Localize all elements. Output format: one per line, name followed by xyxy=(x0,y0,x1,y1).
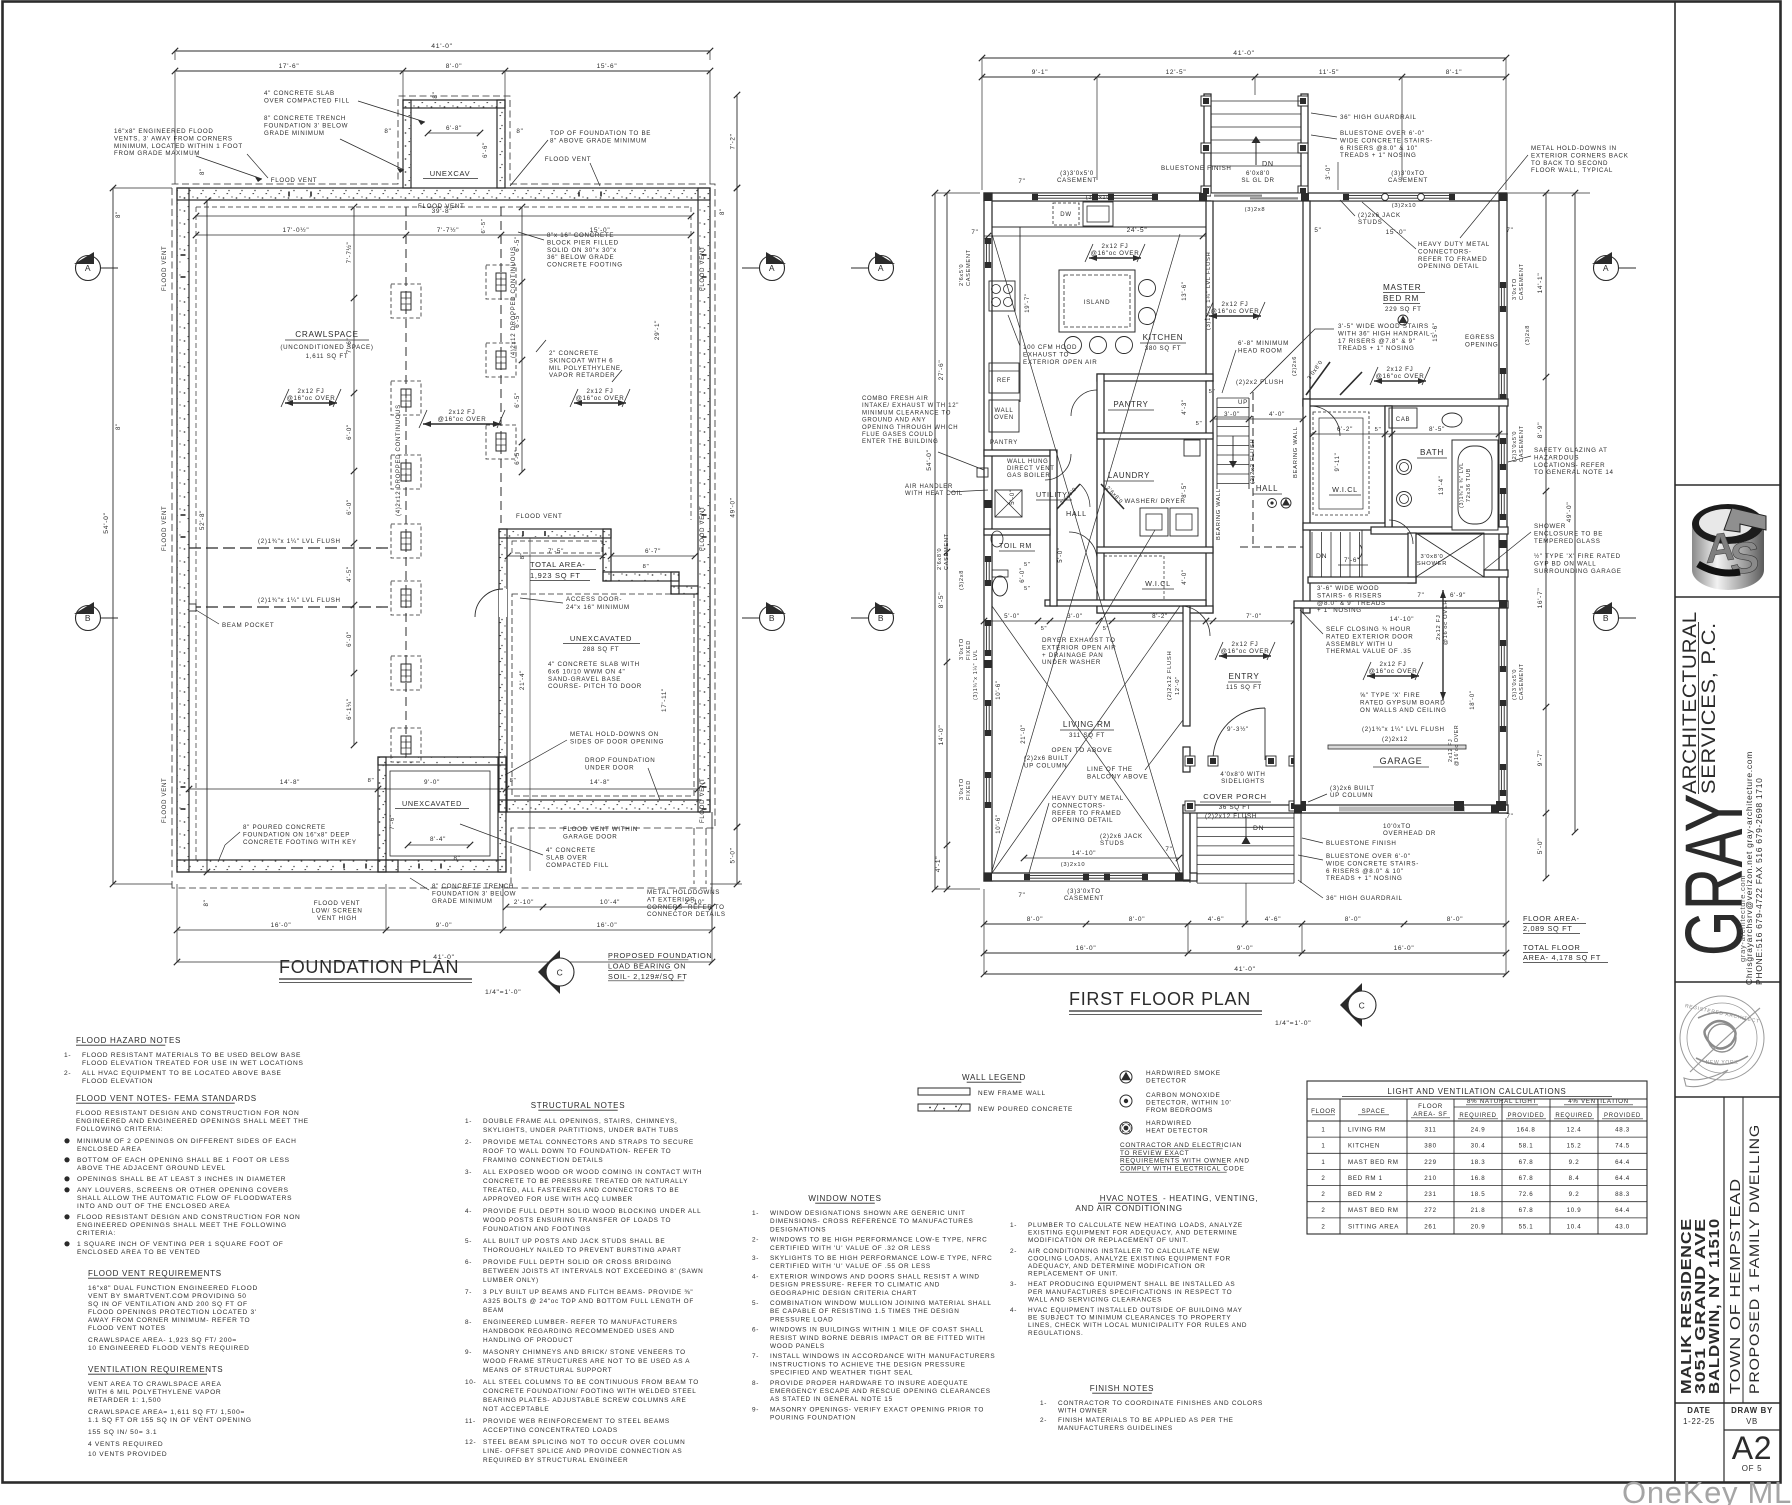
svg-text:6'-9": 6'-9" xyxy=(1450,592,1466,599)
svg-text:DOUBLE FRAME ALL OPENINGS, STA: DOUBLE FRAME ALL OPENINGS, STAIRS, CHIMN… xyxy=(483,1118,678,1125)
svg-text:1-22-25: 1-22-25 xyxy=(1683,1417,1715,1426)
svg-text:MAST BED RM: MAST BED RM xyxy=(1348,1159,1399,1166)
svg-text:BEARING WALL: BEARING WALL xyxy=(1293,426,1299,478)
door leaf diagonals near hall xyxy=(1306,362,1330,395)
svg-text:UP COLUMN: UP COLUMN xyxy=(1024,762,1067,769)
svg-text:DESIGN PRESSURE- REFER TO CLIM: DESIGN PRESSURE- REFER TO CLIMATIC AND xyxy=(770,1282,940,1289)
washer dryer xyxy=(1140,508,1168,536)
svg-text:SL GL DR: SL GL DR xyxy=(1241,177,1274,184)
svg-text:AT EXTERIOR: AT EXTERIOR xyxy=(647,896,695,903)
svg-text:11'-5": 11'-5" xyxy=(1319,69,1339,76)
svg-text:5": 5" xyxy=(1024,562,1031,568)
svg-text:BEAM: BEAM xyxy=(483,1307,504,1314)
svg-text:MIL POLYETHYLENE: MIL POLYETHYLENE xyxy=(549,365,621,372)
foundation inner wall line xyxy=(189,199,698,201)
svg-text:FLOOD RESISTANT DESIGN AND CON: FLOOD RESISTANT DESIGN AND CONSTRUCTION … xyxy=(76,1110,300,1117)
unexcav bump walls xyxy=(403,100,505,108)
svg-text:VENTS, 3' AWAY FROM CORNERS: VENTS, 3' AWAY FROM CORNERS xyxy=(114,135,233,142)
svg-text:OPEN TO ABOVE: OPEN TO ABOVE xyxy=(1051,747,1112,754)
svg-text:FLOOD ELEVATION TREATED FOR US: FLOOD ELEVATION TREATED FOR USE IN WET L… xyxy=(82,1060,304,1067)
svg-text:THOROUGHLY NAILED TO PREVENT B: THOROUGHLY NAILED TO PREVENT BURSTING AP… xyxy=(483,1247,682,1254)
svg-text:CONCRETE FOUNDATION/ FOOTING W: CONCRETE FOUNDATION/ FOOTING WITH WELDED… xyxy=(483,1388,697,1395)
top dimension rows xyxy=(175,50,710,52)
architect seal xyxy=(1680,996,1764,1080)
svg-text:BETWEEN JOISTS AT INTERVALS NO: BETWEEN JOISTS AT INTERVALS NOT EXCEEDIN… xyxy=(483,1268,703,1275)
bottom living windows xyxy=(1024,873,1148,881)
svg-text:WITH 36" HIGH HANDRAIL-: WITH 36" HIGH HANDRAIL- xyxy=(1338,330,1433,337)
svg-text:5": 5" xyxy=(1375,427,1382,433)
svg-text:(3)1¾"x 1¼" LVL: (3)1¾"x 1¼" LVL xyxy=(973,649,979,700)
svg-text:ANY LOUVERS, SCREENS OR OTHER: ANY LOUVERS, SCREENS OR OTHER OPENING CO… xyxy=(77,1187,289,1194)
svg-text:EXTERIOR OPEN AIR: EXTERIOR OPEN AIR xyxy=(1023,359,1097,366)
svg-text:(3)2x8: (3)2x8 xyxy=(959,570,965,590)
svg-text:54'-0": 54'-0" xyxy=(926,449,933,471)
svg-text:WALL LEGEND: WALL LEGEND xyxy=(962,1073,1026,1082)
access door opening + arc xyxy=(499,589,507,617)
svg-text:2x12 FJ: 2x12 FJ xyxy=(1387,366,1414,373)
svg-text:2-: 2- xyxy=(465,1139,472,1146)
svg-text:PANTRY: PANTRY xyxy=(1113,400,1148,409)
svg-text:LUMBER ONLY): LUMBER ONLY) xyxy=(483,1277,539,1284)
svg-text:@16"oc OVER: @16"oc OVER xyxy=(287,395,336,402)
svg-text:ACCEPTING CONCENTRATED LOADS: ACCEPTING CONCENTRATED LOADS xyxy=(483,1427,618,1434)
svg-text:PANTRY: PANTRY xyxy=(990,440,1018,446)
smoke detector master xyxy=(1398,315,1408,325)
svg-text:EXTERIOR WINDOWS AND DOORS SHA: EXTERIOR WINDOWS AND DOORS SHALL RESIST … xyxy=(770,1273,980,1280)
wall oven xyxy=(989,400,1019,432)
svg-text:229: 229 xyxy=(1424,1159,1436,1166)
svg-text:8": 8" xyxy=(520,553,526,560)
svg-text:5'-0": 5'-0" xyxy=(1537,838,1544,854)
svg-text:8'-5": 8'-5" xyxy=(938,592,945,608)
svg-text:HALL: HALL xyxy=(1256,484,1278,493)
svg-text:17 RISERS @7.8" & 9": 17 RISERS @7.8" & 9" xyxy=(1338,338,1416,345)
svg-text:1/4"=1'-0": 1/4"=1'-0" xyxy=(1275,1020,1311,1027)
svg-text:41'-0": 41'-0" xyxy=(1234,966,1256,973)
svg-text:FROM GRADE MAXIMUM: FROM GRADE MAXIMUM xyxy=(114,150,200,157)
svg-text:8": 8" xyxy=(453,855,460,862)
svg-text:REQUIREMENTS WITH OWNER AND: REQUIREMENTS WITH OWNER AND xyxy=(1120,1158,1250,1165)
svg-text:SKYLIGHTS, UNDER PARTITIONS, U: SKYLIGHTS, UNDER PARTITIONS, UNDER BATH … xyxy=(483,1127,679,1134)
svg-text:VENT AREA TO CRAWLSPACE AREA: VENT AREA TO CRAWLSPACE AREA xyxy=(88,1381,222,1388)
svg-text:8'-0": 8'-0" xyxy=(1129,916,1145,923)
svg-text:OPENING: OPENING xyxy=(1465,341,1498,348)
svg-text:(2)2x12: (2)2x12 xyxy=(1382,736,1408,743)
svg-text:11-: 11- xyxy=(465,1418,476,1425)
smoke/co detectors hall xyxy=(1268,499,1277,508)
svg-text:2: 2 xyxy=(1321,1223,1325,1230)
svg-text:BED RM 1: BED RM 1 xyxy=(1348,1175,1383,1182)
svg-text:OVERHEAD DR: OVERHEAD DR xyxy=(1383,830,1436,837)
svg-text:STUDS: STUDS xyxy=(1358,219,1382,226)
svg-text:WINDOWS TO BE HIGH PERFORMANCE: WINDOWS TO BE HIGH PERFORMANCE LOW-E TYP… xyxy=(770,1237,987,1244)
wicl master xyxy=(1385,406,1392,529)
svg-text:TREADS + 1" NOSING: TREADS + 1" NOSING xyxy=(1326,875,1403,882)
svg-text:WIDE CONCRETE STAIRS-: WIDE CONCRETE STAIRS- xyxy=(1326,860,1419,867)
right wall windows xyxy=(1499,282,1507,312)
svg-text:POURING FOUNDATION: POURING FOUNDATION xyxy=(770,1415,856,1422)
svg-text:4 VENTS REQUIRED: 4 VENTS REQUIRED xyxy=(88,1441,163,1448)
svg-text:PROPOSED FOUNDATION: PROPOSED FOUNDATION xyxy=(608,951,712,960)
svg-text:2-: 2- xyxy=(752,1237,759,1244)
svg-text:67.8: 67.8 xyxy=(1519,1207,1534,1214)
svg-text:3'-0": 3'-0" xyxy=(1067,613,1083,620)
svg-text:BEARING WALL: BEARING WALL xyxy=(1216,488,1222,540)
left wall windows xyxy=(984,238,992,268)
svg-text:261: 261 xyxy=(1424,1223,1436,1230)
svg-text:FLOOD VENT: FLOOD VENT xyxy=(545,156,592,163)
svg-text:CASEMENT: CASEMENT xyxy=(1064,895,1104,902)
svg-text:@16"oc OVER: @16"oc OVER xyxy=(1369,668,1418,675)
toil rm sink xyxy=(991,531,1003,547)
svg-text:8": 8" xyxy=(203,899,210,906)
svg-text:8": 8" xyxy=(643,564,650,570)
svg-text:5-: 5- xyxy=(752,1300,759,1307)
svg-text:12'-5": 12'-5" xyxy=(1166,69,1187,76)
svg-text:METAL HOLDDOWNS: METAL HOLDDOWNS xyxy=(647,889,720,896)
svg-text:24"x 16" MINIMUM: 24"x 16" MINIMUM xyxy=(566,604,630,611)
svg-text:SHOWER: SHOWER xyxy=(1417,561,1447,567)
svg-text:8'-0": 8'-0" xyxy=(446,63,462,70)
svg-text:@16"oc OVER: @16"oc OVER xyxy=(576,395,625,402)
svg-text:SOIL- 2,129#/SQ FT: SOIL- 2,129#/SQ FT xyxy=(608,972,688,981)
svg-text:5": 5" xyxy=(1196,421,1203,427)
svg-text:8": 8" xyxy=(200,168,206,175)
svg-text:1: 1 xyxy=(1321,1159,1325,1166)
svg-text:10 VENTS PROVIDED: 10 VENTS PROVIDED xyxy=(88,1451,167,1458)
svg-text:FOLLOWING CRITERIA:: FOLLOWING CRITERIA: xyxy=(76,1126,163,1133)
svg-text:6'-5": 6'-5" xyxy=(481,218,487,233)
svg-text:FLUE GASES COULD: FLUE GASES COULD xyxy=(862,432,934,438)
svg-text:A: A xyxy=(1603,263,1609,273)
C marker floor plan xyxy=(1340,983,1362,1027)
svg-text:FRAMING CONNECTION DETAILS: FRAMING CONNECTION DETAILS xyxy=(483,1157,603,1164)
svg-text:6x6 10/10 WWM ON 4": 6x6 10/10 WWM ON 4" xyxy=(548,668,625,675)
svg-text:1-: 1- xyxy=(1040,1400,1047,1407)
svg-text:1: 1 xyxy=(1321,1127,1325,1134)
svg-text:2x12 FJ: 2x12 FJ xyxy=(1436,614,1442,640)
svg-text:7": 7" xyxy=(1165,846,1172,853)
joist arrows foundation xyxy=(285,402,337,404)
entry left wall xyxy=(1183,606,1190,726)
svg-text:272: 272 xyxy=(1424,1207,1436,1214)
svg-text:LIVING RM: LIVING RM xyxy=(1348,1127,1386,1134)
svg-text:19'-7": 19'-7" xyxy=(1025,293,1031,312)
svg-text:72x36 TUB: 72x36 TUB xyxy=(1466,468,1472,502)
svg-text:4-: 4- xyxy=(465,1208,472,1215)
svg-text:LIVING RM: LIVING RM xyxy=(1063,720,1111,729)
DW dashed box xyxy=(1053,203,1079,225)
svg-text:ALL BUILT UP POSTS AND JACK ST: ALL BUILT UP POSTS AND JACK STUDS SHALL … xyxy=(483,1238,665,1245)
svg-text:MINIMUM CLEARANCE TO: MINIMUM CLEARANCE TO xyxy=(862,410,951,416)
svg-text:COURSE- PITCH TO DOOR: COURSE- PITCH TO DOOR xyxy=(548,683,642,690)
svg-text:COVER PORCH: COVER PORCH xyxy=(1203,792,1267,801)
svg-text:(2)2x6: (2)2x6 xyxy=(1292,356,1298,376)
svg-text:LAUNDRY: LAUNDRY xyxy=(1108,471,1150,480)
svg-text:2x12 FJ: 2x12 FJ xyxy=(449,409,476,416)
svg-text:49'-0": 49'-0" xyxy=(730,497,737,517)
svg-text:7": 7" xyxy=(1506,227,1513,234)
bottom dim rows foundation xyxy=(506,906,712,908)
svg-text:115 SQ FT: 115 SQ FT xyxy=(1226,684,1262,691)
flood vent breaks in walls xyxy=(289,192,311,197)
svg-text:C: C xyxy=(557,968,564,978)
svg-text:BEARING PLATES- ADJUSTABLE SCR: BEARING PLATES- ADJUSTABLE SCREW COLUMNS… xyxy=(483,1397,687,1404)
svg-text:7'-7½": 7'-7½" xyxy=(437,226,460,234)
svg-text:FLOOR AREA-: FLOOR AREA- xyxy=(1523,914,1580,923)
svg-text:(3)1¾"x 1¼" LVL FLUSH: (3)1¾"x 1¼" LVL FLUSH xyxy=(1206,252,1212,330)
svg-text:FROM BEDROOMS: FROM BEDROOMS xyxy=(1146,1107,1213,1114)
svg-text:ALL HVAC EQUIPMENT TO BE LOCAT: ALL HVAC EQUIPMENT TO BE LOCATED ABOVE B… xyxy=(82,1070,282,1077)
svg-text:PRESSURE LOAD: PRESSURE LOAD xyxy=(770,1316,833,1323)
svg-text:CERTIFIED WITH 'U' VALUE OF .3: CERTIFIED WITH 'U' VALUE OF .32 OR LESS xyxy=(770,1245,931,1252)
svg-text:CONNECTORS-: CONNECTORS- xyxy=(1418,248,1472,255)
svg-text:B: B xyxy=(85,613,91,623)
floor plan dims bottom xyxy=(984,923,1506,925)
svg-text:@16'oc OVER: @16'oc OVER xyxy=(1443,600,1449,645)
svg-text:4'-0": 4'-0" xyxy=(1182,569,1188,584)
svg-text:6'-8": 6'-8" xyxy=(446,125,462,132)
svg-text:GARAGE DOOR: GARAGE DOOR xyxy=(563,833,617,840)
kitchen counter lines xyxy=(992,226,1208,228)
tub xyxy=(1452,440,1498,530)
svg-text:CONNECTOR DETAILS: CONNECTOR DETAILS xyxy=(647,911,726,918)
svg-text:PROVIDE FULL DEPTH SOLID WOOD: PROVIDE FULL DEPTH SOLID WOOD BLOCKING U… xyxy=(483,1208,701,1215)
shower xyxy=(1408,533,1416,583)
floor plan dimensions top xyxy=(982,57,1506,59)
svg-text:+ DRAINAGE PAN: + DRAINAGE PAN xyxy=(1042,652,1103,659)
svg-text:CRAWLSPACE AREA- 1,923 SQ FT/: CRAWLSPACE AREA- 1,923 SQ FT/ 200= xyxy=(88,1337,237,1344)
svg-text:MASONRY OPENINGS- VERIFY EXACT: MASONRY OPENINGS- VERIFY EXACT OPENING P… xyxy=(770,1406,984,1413)
svg-text:16'-0": 16'-0" xyxy=(597,922,618,929)
svg-text:@16"oc OVER: @16"oc OVER xyxy=(1211,308,1260,315)
svg-text:ON WALLS AND CEILING: ON WALLS AND CEILING xyxy=(1360,707,1447,714)
svg-text:LINE OF THE: LINE OF THE xyxy=(1087,766,1133,773)
52-8 dim xyxy=(206,201,208,872)
svg-text:4'-6": 4'-6" xyxy=(1265,916,1281,923)
svg-text:5": 5" xyxy=(1209,389,1216,395)
svg-text:OPENING DETAIL: OPENING DETAIL xyxy=(1052,817,1113,824)
svg-text:STUDS: STUDS xyxy=(1100,840,1124,847)
svg-text:FLOOD VENT WITHIN: FLOOD VENT WITHIN xyxy=(563,826,638,833)
svg-text:PROVIDE PROPER HARDWARE TO INS: PROVIDE PROPER HARDWARE TO INSURE ADEQUA… xyxy=(770,1380,968,1387)
svg-text:8'-0": 8'-0" xyxy=(1447,916,1463,923)
svg-text:1,923 SQ FT: 1,923 SQ FT xyxy=(530,571,581,580)
interior top dims xyxy=(196,215,691,217)
svg-text:CAB: CAB xyxy=(1396,417,1410,423)
svg-text:3'-0": 3'-0" xyxy=(1326,164,1332,179)
door swing arcs xyxy=(1310,406,1340,436)
svg-text:4" CONCRETE: 4" CONCRETE xyxy=(546,847,596,854)
svg-text:1.1 SQ FT OR 155 SQ IN OF VENT: 1.1 SQ FT OR 155 SQ IN OF VENT OPENING xyxy=(88,1417,252,1424)
svg-text:ALL STEEL COLUMNS TO BE CONTIN: ALL STEEL COLUMNS TO BE CONTINUOUS FROM … xyxy=(483,1379,699,1386)
svg-text:HEAVY DUTY METAL: HEAVY DUTY METAL xyxy=(1418,241,1490,248)
svg-text:9'-0": 9'-0" xyxy=(436,922,452,929)
title block cell borders xyxy=(1675,484,1781,486)
svg-text:ADEQUACY, AND DETERMINE MODIFI: ADEQUACY, AND DETERMINE MODIFICATION OR xyxy=(1028,1263,1206,1270)
svg-text:SPACE: SPACE xyxy=(1361,1108,1385,1115)
entry/garage wall xyxy=(1294,608,1301,805)
svg-text:GARAGE: GARAGE xyxy=(1380,756,1423,766)
svg-text:LOW/ SCREEN: LOW/ SCREEN xyxy=(311,907,362,914)
svg-text:(2)1¾"x 1¼" LVL FLUSH: (2)1¾"x 1¼" LVL FLUSH xyxy=(258,538,341,545)
svg-text:1-: 1- xyxy=(1010,1222,1017,1229)
entry door arc xyxy=(1213,708,1265,760)
master suite walls xyxy=(1303,201,1310,406)
svg-text:FLOOD VENT: FLOOD VENT xyxy=(162,246,168,291)
svg-text:KITCHEN: KITCHEN xyxy=(1348,1143,1380,1150)
svg-text:(2)2x6 JACK: (2)2x6 JACK xyxy=(1358,212,1401,219)
svg-text:UNEXCAV: UNEXCAV xyxy=(430,169,471,178)
boiler box xyxy=(995,490,1022,517)
svg-text:8'-9": 8'-9" xyxy=(1537,422,1544,438)
svg-text:164.8: 164.8 xyxy=(1517,1127,1536,1134)
piers on line A xyxy=(391,284,421,318)
svg-text:8.4: 8.4 xyxy=(1569,1175,1580,1182)
svg-text:7'-2": 7'-2" xyxy=(730,133,737,149)
svg-text:MAST BED RM: MAST BED RM xyxy=(1348,1207,1399,1214)
svg-text:CASEMENT: CASEMENT xyxy=(944,533,950,570)
svg-text:WOOD PANELS: WOOD PANELS xyxy=(770,1343,825,1350)
svg-text:MANUFACTURERS GUIDELINES: MANUFACTURERS GUIDELINES xyxy=(1058,1425,1173,1432)
svg-text:18'-0": 18'-0" xyxy=(1470,690,1476,709)
svg-text:13'-4": 13'-4" xyxy=(1439,476,1445,495)
interior walls: kitchen/hall divider xyxy=(1206,201,1213,381)
svg-text:13'-6": 13'-6" xyxy=(1182,281,1188,300)
svg-text:BALCONY ABOVE: BALCONY ABOVE xyxy=(1087,773,1148,780)
svg-text:30.4: 30.4 xyxy=(1471,1143,1486,1150)
svg-text:6 RISERS @8.0" & 10": 6 RISERS @8.0" & 10" xyxy=(1340,145,1418,152)
svg-text:COOLING LOADS, ANALYZE EXISTIN: COOLING LOADS, ANALYZE EXISTING EQUIPMEN… xyxy=(1028,1255,1231,1262)
garage overhead door xyxy=(1339,807,1465,812)
foundation outer wall band xyxy=(177,188,710,200)
svg-text:HARDWIRED: HARDWIRED xyxy=(1146,1120,1192,1127)
svg-text:AWAY FROM CORNER MINIMUM- REFE: AWAY FROM CORNER MINIMUM- REFER TO xyxy=(88,1317,250,1324)
svg-text:9.2: 9.2 xyxy=(1569,1191,1580,1198)
svg-text:55.1: 55.1 xyxy=(1519,1223,1534,1230)
svg-text:B: B xyxy=(878,613,884,623)
toilet toilrm xyxy=(993,576,1008,596)
svg-text:(UNCONDITIONED SPACE): (UNCONDITIONED SPACE) xyxy=(280,344,373,351)
svg-text:380 SQ FT: 380 SQ FT xyxy=(1145,345,1182,352)
wicl dashed shelves xyxy=(1104,556,1164,600)
svg-text:OPENINGS SHALL BE AT LEAST 3 I: OPENINGS SHALL BE AT LEAST 3 INCHES IN D… xyxy=(77,1176,286,1183)
stove xyxy=(989,281,1015,311)
svg-text:SAND-GRAVEL BASE: SAND-GRAVEL BASE xyxy=(548,676,621,683)
svg-text:TOIL RM: TOIL RM xyxy=(999,543,1032,550)
DN arrow top stairs xyxy=(1255,140,1257,165)
foundation footing dashed outline xyxy=(172,96,715,888)
svg-text:4'0x8'0 WITH: 4'0x8'0 WITH xyxy=(1220,771,1265,778)
svg-text:CONTRACTOR AND ELECTRICIAN: CONTRACTOR AND ELECTRICIAN xyxy=(1120,1142,1242,1149)
svg-text:CARBON MONOXIDE: CARBON MONOXIDE xyxy=(1146,1092,1220,1099)
svg-text:WALL AND SERVICING CLEARANCES: WALL AND SERVICING CLEARANCES xyxy=(1028,1296,1162,1303)
svg-text:72.6: 72.6 xyxy=(1519,1191,1534,1198)
svg-text:ENTRY: ENTRY xyxy=(1228,672,1259,681)
svg-text:PHONE:516 679-4722 FAX 516 679: PHONE:516 679-4722 FAX 516 679-2698 1710 xyxy=(1754,777,1764,985)
svg-text:10'-6": 10'-6" xyxy=(996,680,1002,699)
svg-text:ENTER THE BUILDING: ENTER THE BUILDING xyxy=(862,439,939,445)
svg-text:FLOOD OPENINGS PROTECTION LOCA: FLOOD OPENINGS PROTECTION LOCATED 3' xyxy=(88,1309,257,1316)
svg-text:B: B xyxy=(769,613,775,623)
svg-text:AND AIR CONDITIONING: AND AIR CONDITIONING xyxy=(1075,1204,1182,1213)
svg-text:2x12 FJ: 2x12 FJ xyxy=(587,388,614,395)
svg-text:VENT BY SMARTVENT.COM PROVIDIN: VENT BY SMARTVENT.COM PROVIDING 50 xyxy=(88,1293,247,1300)
svg-text:67.8: 67.8 xyxy=(1519,1159,1534,1166)
svg-text:8": 8" xyxy=(116,423,122,430)
svg-text:29'-1": 29'-1" xyxy=(654,320,661,340)
svg-text:AIR HANDLER: AIR HANDLER xyxy=(905,484,953,490)
svg-text:8"x 16" CONCRETE: 8"x 16" CONCRETE xyxy=(547,232,614,239)
svg-text:FINISH MATERIALS TO BE APPLIED: FINISH MATERIALS TO BE APPLIED AS PER TH… xyxy=(1058,1417,1234,1424)
svg-text:PROVIDED: PROVIDED xyxy=(1604,1113,1641,1119)
svg-text:4'-0": 4'-0" xyxy=(1269,411,1285,418)
svg-text:TREADS + 1" NOSING: TREADS + 1" NOSING xyxy=(1340,152,1417,159)
svg-text:8'-5": 8'-5" xyxy=(1182,482,1188,497)
svg-text:8'-2": 8'-2" xyxy=(1152,613,1168,620)
kitchen sink xyxy=(1083,202,1113,226)
svg-text:PROVIDE FULL DEPTH SOLID OR CR: PROVIDE FULL DEPTH SOLID OR CROSS BRIDGI… xyxy=(483,1259,672,1266)
bluestone patio edges top xyxy=(1203,88,1205,94)
svg-text:FOUNDATION AND FOOTINGS: FOUNDATION AND FOOTINGS xyxy=(483,1226,591,1233)
svg-text:WINDOW DESIGNATIONS SHOWN ARE: WINDOW DESIGNATIONS SHOWN ARE GENERIC UN… xyxy=(770,1210,965,1217)
svg-text:16.8: 16.8 xyxy=(1471,1175,1486,1182)
svg-text:7'-0": 7'-0" xyxy=(1246,613,1262,620)
svg-text:GAS BOILER: GAS BOILER xyxy=(1007,473,1050,479)
svg-text:OF 5: OF 5 xyxy=(1742,1464,1763,1473)
svg-text:(4)2x12 DROPPED CONTINUOUS: (4)2x12 DROPPED CONTINUOUS xyxy=(396,404,402,516)
svg-text:CASEMENT: CASEMENT xyxy=(1519,263,1525,300)
svg-text:(3)2x6 BUILT: (3)2x6 BUILT xyxy=(1330,785,1375,792)
svg-text:2'6x5'0: 2'6x5'0 xyxy=(959,264,965,286)
svg-text:3'0xTO: 3'0xTO xyxy=(959,638,965,660)
svg-text:TOWN OF HEMPSTEAD: TOWN OF HEMPSTEAD xyxy=(1727,1178,1744,1394)
svg-text:SKINCOAT WITH 6: SKINCOAT WITH 6 xyxy=(549,357,613,364)
svg-text:HANDBOOK REGARDING RECOMMENDE: HANDBOOK REGARDING RECOMMENDED USES AND xyxy=(483,1328,675,1335)
svg-text:INTO AND OUT OF THE ENCLOSED A: INTO AND OUT OF THE ENCLOSED AREA xyxy=(77,1203,230,1210)
svg-text:24.9: 24.9 xyxy=(1471,1127,1486,1134)
svg-text:COMPLY WITH ELECTRICAL CODE: COMPLY WITH ELECTRICAL CODE xyxy=(1120,1165,1245,1172)
svg-text:(4)2x12 DROPPED CONTINUOUS: (4)2x12 DROPPED CONTINUOUS xyxy=(511,246,517,358)
bearing wall dashed xyxy=(1252,392,1254,547)
svg-text:(2)2x6 BUILT: (2)2x6 BUILT xyxy=(1024,755,1069,762)
svg-text:(3)2x10: (3)2x10 xyxy=(1061,862,1086,868)
svg-text:REF: REF xyxy=(997,378,1011,384)
svg-text:1 SQUARE INCH OF VENTING PER 1: 1 SQUARE INCH OF VENTING PER 1 SQUARE FO… xyxy=(77,1241,284,1248)
svg-text:GRADE MINIMUM: GRADE MINIMUM xyxy=(432,898,493,905)
svg-text:REGULATIONS.: REGULATIONS. xyxy=(1028,1330,1084,1337)
svg-text:7'-6": 7'-6" xyxy=(389,814,396,830)
svg-text:OneKey MLS: OneKey MLS xyxy=(1622,1475,1792,1505)
svg-text:8": 8" xyxy=(368,778,375,784)
svg-text:2: 2 xyxy=(1321,1175,1325,1182)
C marker foundation xyxy=(538,950,560,994)
svg-text:BED RM 2: BED RM 2 xyxy=(1348,1191,1383,1198)
svg-text:8'-4": 8'-4" xyxy=(430,836,446,843)
svg-text:PROVIDE METAL CONNECTORS AND S: PROVIDE METAL CONNECTORS AND STRAPS TO S… xyxy=(483,1139,694,1146)
svg-text:MASONRY CHIMNEYS AND BRICK/ ST: MASONRY CHIMNEYS AND BRICK/ STONE VENEER… xyxy=(483,1349,686,1356)
svg-text:FOUNDATION ON 16"x8" DEEP: FOUNDATION ON 16"x8" DEEP xyxy=(243,831,350,838)
svg-text:2: 2 xyxy=(1321,1207,1325,1214)
svg-text:43.0: 43.0 xyxy=(1615,1223,1630,1230)
svg-text:LOAD BEARING ON: LOAD BEARING ON xyxy=(608,962,686,971)
svg-text:SLAB OVER: SLAB OVER xyxy=(546,854,587,861)
wall below DN stairs/shower xyxy=(1308,577,1416,583)
svg-text:LINES, CHECK WITH LOCAL MUNICI: LINES, CHECK WITH LOCAL MUNICIPALITY FOR… xyxy=(1028,1322,1247,1329)
svg-text:10.9: 10.9 xyxy=(1567,1207,1582,1214)
svg-text:BLOCK PIER FILLED: BLOCK PIER FILLED xyxy=(547,239,619,246)
svg-text:AS STATED IN GENERAL NOTE 15: AS STATED IN GENERAL NOTE 15 xyxy=(770,1396,893,1403)
